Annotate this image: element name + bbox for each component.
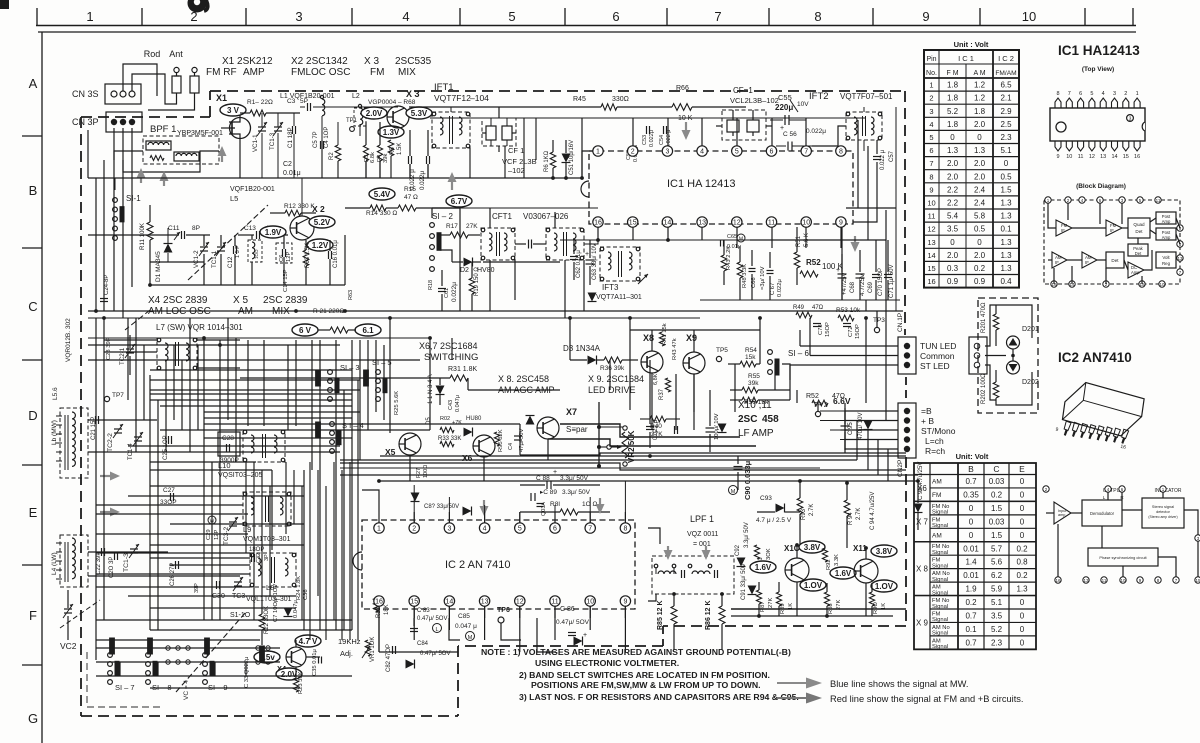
capacitor C54 — [663, 126, 665, 134]
IC1 block diagram post amp 1 box — [1156, 212, 1176, 224]
svg-text:0: 0 — [1020, 625, 1025, 634]
svg-text:X 3: X 3 — [364, 56, 379, 67]
wire x460 SI2 — [432, 207, 460, 209]
svg-text:X6,7 2SC1684: X6,7 2SC1684 — [419, 341, 478, 351]
svg-text:AM LOC OSC: AM LOC OSC — [148, 306, 211, 317]
resistor R55 — [742, 387, 758, 393]
svg-text:0.01μ: 0.01μ — [283, 170, 301, 177]
svg-text:5.2: 5.2 — [947, 107, 959, 116]
svg-text:0.2: 0.2 — [965, 598, 977, 607]
trim cap TC1-4 — [134, 436, 142, 438]
svg-text:0.1: 0.1 — [965, 625, 977, 634]
svg-text:A M: A M — [973, 70, 985, 77]
svg-text:Signal: Signal — [932, 617, 948, 623]
svg-text:1.4: 1.4 — [965, 558, 977, 567]
svg-text:5.2: 5.2 — [991, 625, 1003, 634]
svg-text:1.3: 1.3 — [1000, 264, 1012, 273]
variable cap VC2 — [64, 608, 72, 610]
svg-text:C63 33μ/ 10V: C63 33μ/ 10V — [592, 243, 598, 280]
svg-text:USING ELECTRONIC VOLTMETER.: USING ELECTRONIC VOLTMETER. — [535, 658, 679, 668]
wire bus y424 mid — [430, 423, 520, 425]
svg-text:2SC 2839: 2SC 2839 — [263, 295, 308, 306]
wire IC2 pin8 right — [648, 528, 660, 544]
svg-text:V03067–026: V03067–026 — [523, 212, 569, 221]
wire bus y285 — [150, 284, 345, 286]
capacitor C62 — [570, 256, 578, 258]
switch SI-7 — [108, 653, 113, 658]
wire pin13-16 stubs down — [597, 227, 599, 240]
voltage 5.4V — [369, 188, 395, 200]
svg-text:0: 0 — [977, 238, 982, 247]
svg-text:VQM1T03–301: VQM1T03–301 — [243, 536, 291, 543]
svg-text:5.1: 5.1 — [1000, 146, 1012, 155]
svg-text:6.5: 6.5 — [1000, 81, 1012, 90]
resistor R2 — [335, 145, 341, 161]
svg-text:Ant: Ant — [169, 49, 183, 59]
wire bus y178 — [88, 177, 582, 179]
svg-text:7: 7 — [588, 526, 592, 533]
resistor R23 — [293, 678, 298, 692]
svg-text:Demodulator: Demodulator — [1090, 511, 1115, 516]
svg-text:14: 14 — [446, 599, 454, 606]
capacitor C27 — [170, 493, 172, 501]
svg-text:Amp: Amp — [1162, 235, 1171, 240]
svg-text:CFT1: CFT1 — [492, 212, 513, 221]
svg-text:R6 1KΩ: R6 1KΩ — [544, 150, 550, 172]
svg-text:LF AMP: LF AMP — [738, 428, 774, 439]
svg-text:0.9: 0.9 — [974, 277, 986, 286]
dashed gang line L5 — [188, 205, 268, 280]
svg-text:C57: C57 — [889, 150, 895, 162]
svg-text:SI – 3: SI – 3 — [340, 363, 360, 372]
svg-text:C4 1OP: C4 1OP — [324, 127, 330, 148]
capacitor C20 — [114, 552, 116, 560]
svg-text:2.0: 2.0 — [974, 251, 986, 260]
svg-text:13: 13 — [698, 220, 706, 227]
svg-text:9: 9 — [922, 9, 929, 24]
wire X4 area — [261, 600, 263, 614]
wire bus y262-310 verticals — [87, 130, 89, 178]
IC2 block diagram stereo detector box — [1142, 498, 1184, 528]
wire CN1P feeds — [800, 345, 898, 347]
resistor R43 — [721, 255, 727, 271]
svg-text:C93: C93 — [760, 495, 772, 502]
svg-text:5: 5 — [735, 149, 739, 156]
small caps row C — [100, 298, 108, 300]
test point TP7 — [104, 396, 109, 401]
svg-text:10: 10 — [802, 220, 810, 227]
svg-text:TP6: TP6 — [497, 607, 510, 614]
svg-text:5: 5 — [1090, 91, 1093, 97]
svg-text:3 V: 3 V — [227, 106, 240, 115]
svg-text:0.022μ: 0.022μ — [419, 171, 426, 190]
svg-text:G: G — [28, 711, 38, 726]
svg-text:12: 12 — [733, 220, 741, 227]
svg-text:0: 0 — [1020, 504, 1025, 513]
svg-text:2.9: 2.9 — [1000, 107, 1012, 116]
svg-text:R45: R45 — [573, 96, 586, 103]
svg-text:L7 (SW) VQR 1014–301: L7 (SW) VQR 1014–301 — [156, 323, 243, 332]
svg-text:1.OV: 1.OV — [804, 581, 823, 590]
svg-text:3: 3 — [1113, 91, 1116, 97]
svg-text:R15: R15 — [404, 186, 416, 193]
wire CN2P horizontals — [820, 410, 898, 412]
voltage 3.8V X11 — [871, 545, 897, 557]
dashed circuit boundary right mid — [905, 377, 907, 400]
FET X1 — [230, 118, 251, 139]
IC1 pin 5 top lead — [1089, 98, 1095, 108]
IC1 pin 6 top lead — [1078, 98, 1084, 108]
svg-text:MIX: MIX — [398, 67, 416, 78]
svg-text:C85: C85 — [458, 613, 470, 620]
svg-text:0.8: 0.8 — [1016, 558, 1028, 567]
resistor R4 — [377, 145, 382, 161]
diode D7 — [864, 421, 873, 430]
svg-text:0.01: 0.01 — [963, 544, 979, 553]
wire x460 down from 6.7V — [459, 218, 461, 311]
svg-text:C 95: C 95 — [848, 422, 854, 435]
wire X1 drain bus — [240, 112, 250, 114]
svg-text:X7: X7 — [566, 407, 577, 417]
svg-text:6: 6 — [612, 9, 619, 24]
dashed circuit boundary top-left segment — [81, 116, 210, 118]
svg-text:1: 1 — [86, 9, 93, 24]
ceramic filter CF-1 — [722, 110, 766, 140]
svg-text:D201: D201 — [1022, 326, 1039, 333]
svg-text:1.5K: 1.5K — [397, 143, 403, 155]
circled M mark — [737, 234, 745, 242]
switch SI-9 — [203, 653, 208, 658]
switch SI-6 — [768, 350, 773, 355]
wire pins 9-12 stubs — [736, 227, 738, 248]
capacitor C6 box — [276, 243, 292, 263]
svg-text:3.3K: 3.3K — [834, 554, 840, 566]
resistor R15 — [398, 205, 416, 211]
diode into pin2 — [411, 493, 420, 502]
wire IC2 top pin stubs — [378, 512, 380, 523]
wire bus y360 left — [88, 359, 420, 361]
svg-text:LPF 1: LPF 1 — [690, 514, 714, 524]
svg-text:IF: IF — [1085, 260, 1089, 265]
circled mark W — [208, 516, 216, 524]
svg-text:L5.6: L5.6 — [52, 387, 59, 400]
svg-text:L5: L5 — [230, 194, 238, 203]
resistor R56 — [742, 397, 758, 403]
low pass filter LPF1 box — [652, 556, 734, 594]
svg-text:TP3: TP3 — [873, 317, 885, 324]
voltage 5.3V — [406, 107, 432, 119]
svg-text:11: 11 — [928, 212, 936, 221]
svg-text:2.0: 2.0 — [947, 159, 959, 168]
dashed circuit boundary bottom — [81, 715, 458, 717]
svg-text:Signal: Signal — [932, 604, 948, 610]
dashed circuit boundary right upper — [904, 91, 906, 335]
svg-text:VCF 2L3B: VCF 2L3B — [502, 157, 537, 166]
svg-text:Signal: Signal — [932, 577, 948, 583]
wire top mid verticals — [321, 140, 323, 178]
IC1 block diagram AM IF1 amp — [1052, 252, 1067, 268]
wire staircase bundle into LF amp — [560, 424, 740, 437]
svg-text:VC2: VC2 — [60, 641, 77, 651]
svg-text:3: 3 — [447, 526, 451, 533]
svg-text:C7 10Oμ/ 1OV: C7 10Oμ/ 1OV — [273, 584, 279, 622]
svg-text:15: 15 — [410, 599, 418, 606]
svg-text:X 8. 2SC458: X 8. 2SC458 — [498, 374, 549, 384]
circled M C90 — [729, 486, 738, 495]
svg-text:0.5: 0.5 — [1000, 172, 1012, 181]
wire bottom bus y616 — [731, 615, 893, 617]
svg-text:C24-8P: C24-8P — [104, 275, 110, 295]
svg-text:5.1: 5.1 — [991, 598, 1003, 607]
svg-text:4: 4 — [483, 526, 487, 533]
svg-text:2.7K: 2.7K — [809, 504, 815, 516]
svg-text:Signal: Signal — [932, 563, 948, 569]
IC1 pin 11 bottom lead — [1078, 141, 1084, 151]
wire CN2P feeds — [845, 410, 898, 412]
title fragment top-left — [0, 0, 9, 9]
svg-text:8: 8 — [1056, 91, 1059, 97]
svg-text:15: 15 — [1195, 578, 1200, 583]
IC2 block diagram input amp triangle — [1054, 502, 1071, 524]
svg-text:0.01: 0.01 — [963, 571, 979, 580]
svg-text:F: F — [29, 608, 37, 623]
svg-text:3: 3 — [295, 9, 302, 24]
svg-text:R36 39k: R36 39k — [600, 365, 625, 372]
svg-text:2) BAND SELCT SWITCHES ARE LO: 2) BAND SELCT SWITCHES ARE LOCATED IN FM… — [519, 670, 770, 680]
svg-text:2SC: 2SC — [738, 414, 757, 425]
svg-text:(Top View): (Top View) — [1082, 66, 1114, 73]
transformer L9 — [243, 492, 291, 526]
svg-text:C: C — [28, 299, 37, 314]
voltage 2.0V — [276, 668, 302, 680]
svg-text:▸C 89: ▸C 89 — [540, 489, 557, 496]
svg-text:2.0V: 2.0V — [281, 670, 298, 679]
diode C84d — [406, 660, 415, 669]
svg-text:IC2 AN7410: IC2 AN7410 — [1058, 350, 1132, 365]
svg-text:L2: L2 — [352, 93, 360, 100]
svg-text:3.3μ/ 50V: 3.3μ/ 50V — [744, 522, 750, 548]
ruler line — [36, 25, 1136, 27]
svg-text:0.3: 0.3 — [947, 264, 959, 273]
svg-text:D2: D2 — [460, 267, 469, 274]
svg-text:0.47μ/ 5OV: 0.47μ/ 5OV — [417, 616, 447, 622]
capacitor C28 — [226, 444, 228, 452]
wire right column verticals — [865, 300, 867, 311]
svg-text:1.2: 1.2 — [974, 94, 986, 103]
resistor R14 — [370, 205, 386, 211]
svg-text:2: 2 — [412, 526, 416, 533]
svg-text:15: 15 — [629, 220, 637, 227]
svg-text:SI – 7: SI – 7 — [115, 683, 135, 692]
resistor R19 — [469, 278, 475, 294]
trim cap TC1-1 — [217, 246, 225, 248]
svg-text:1 1 N 3 4 A: 1 1 N 3 4 A — [428, 374, 434, 404]
svg-text:C13: C13 — [244, 225, 256, 232]
svg-text:458: 458 — [762, 414, 779, 425]
voltage 1.6V X11 — [830, 567, 856, 579]
svg-text:16: 16 — [1134, 154, 1140, 160]
diode D3 — [588, 356, 597, 365]
resistor R93 — [797, 498, 803, 514]
resistor R6 vertical — [550, 152, 556, 168]
svg-text:6.2: 6.2 — [991, 571, 1003, 580]
wire R45 to R46 — [617, 106, 672, 108]
dashed gang line VC2 — [60, 600, 100, 628]
svg-text:4.7 μ / 2.5 V: 4.7 μ / 2.5 V — [756, 517, 792, 524]
wire IC2 pin1 left — [362, 490, 379, 512]
resistor R45 — [601, 104, 617, 110]
svg-text:1.3: 1.3 — [1016, 585, 1028, 594]
svg-text:D1 MA345: D1 MA345 — [155, 251, 162, 282]
svg-text:C 94 4.7u/25V: C 94 4.7u/25V — [870, 492, 876, 530]
resistor R91 — [754, 545, 759, 559]
svg-text:R66: R66 — [676, 85, 689, 92]
svg-text:SI-1: SI-1 — [126, 194, 141, 203]
svg-text:C90 0.033μ: C90 0.033μ — [743, 460, 752, 500]
svg-text:VCL2L3B–102: VCL2L3B–102 — [730, 96, 779, 105]
wire verticals from staircase to CN2P — [844, 411, 846, 453]
voltage 1.0V X10 — [800, 579, 826, 591]
wire drop x460 — [459, 208, 461, 218]
ruler ticks — [36, 8, 38, 25]
svg-text:C71 1μ/ 50V: C71 1μ/ 50V — [889, 265, 895, 298]
svg-text:0.9: 0.9 — [947, 277, 959, 286]
svg-text:6.8k: 6.8k — [370, 152, 376, 163]
capacitor C82 — [392, 646, 394, 654]
IC1 block diagram volt reg box — [1156, 252, 1176, 268]
svg-text:R63: R63 — [348, 290, 354, 300]
svg-text:1.8: 1.8 — [947, 120, 959, 129]
wire pin16 long down — [378, 618, 380, 652]
transformer IFT3 arrow — [638, 274, 648, 284]
wire bottom verticals to bus — [119, 662, 121, 676]
svg-text:2.0: 2.0 — [974, 172, 986, 181]
svg-text:5.8: 5.8 — [974, 212, 986, 221]
wire bottom collect bus y652 — [379, 651, 458, 653]
LW antenna coil L4 — [60, 535, 88, 587]
svg-text:detector: detector — [1156, 510, 1170, 514]
svg-text:C5 7P: C5 7P — [313, 131, 319, 148]
svg-text:Signal: Signal — [932, 644, 948, 650]
wire y456 bus2 — [660, 455, 906, 457]
transistor X7 — [537, 417, 559, 439]
voltage 2.5v — [254, 651, 280, 663]
svg-text:0.2: 0.2 — [991, 490, 1003, 499]
capacitor C13 — [256, 231, 258, 239]
IC1 HA12413 block outline — [589, 151, 853, 224]
LPF coil 2 — [692, 571, 710, 574]
svg-text:Unit: Volt: Unit: Volt — [956, 452, 989, 461]
svg-text:+: + — [583, 632, 587, 639]
svg-text:SI – 5: SI – 5 — [372, 358, 392, 367]
ceramic filter transformer CFT1b — [546, 228, 584, 260]
svg-text:0.1: 0.1 — [1000, 225, 1012, 234]
wire pin8 drop — [853, 200, 877, 222]
voltage 5.2V — [309, 216, 335, 228]
wire x582 vertical — [581, 118, 583, 178]
wire AGC long y378 — [240, 377, 450, 379]
svg-text:16: 16 — [594, 220, 602, 227]
svg-text:R53 10k: R53 10k — [836, 307, 861, 314]
IC1 block diagram internal wires — [1048, 203, 1056, 228]
IF transformer IFT2 — [846, 112, 882, 140]
wire bus y318 long — [88, 317, 700, 319]
svg-text:R22 33OK: R22 33OK — [264, 606, 270, 634]
svg-text:VC1-1: VC1-1 — [252, 134, 259, 152]
IC2 block diagram right pin circle — [1195, 535, 1200, 541]
svg-text:19KHz: 19KHz — [338, 637, 361, 646]
svg-text:C92: C92 — [735, 544, 741, 556]
svg-text:VQSIT03–205: VQSIT03–205 — [218, 472, 262, 479]
svg-text:10: 10 — [1120, 578, 1126, 583]
wire under-IC2 links — [413, 618, 415, 626]
svg-text:13: 13 — [927, 238, 935, 247]
svg-text:0: 0 — [969, 531, 974, 540]
svg-text:4: 4 — [402, 9, 409, 24]
IC2 block diagram wires — [1046, 512, 1054, 514]
svg-text:R24 1.8K: R24 1.8K — [296, 576, 302, 600]
diode at X7 — [526, 416, 535, 425]
capacitor C53 — [646, 126, 648, 134]
svg-text:R17: R17 — [446, 223, 458, 230]
gray arrow MW — [100, 472, 120, 481]
svg-text:C12: C12 — [227, 256, 234, 268]
svg-text:MIX: MIX — [272, 306, 290, 317]
resistor R3 — [363, 145, 368, 161]
wire matrix verticals — [149, 375, 151, 630]
resistor R54 — [740, 361, 756, 367]
dashed circuit boundary left — [80, 117, 82, 716]
svg-text:R202 100Ω: R202 100Ω — [981, 373, 987, 404]
svg-text:27K: 27K — [768, 598, 774, 608]
resistor R48 — [737, 262, 743, 278]
svg-text:CN.1P: CN.1P — [897, 313, 904, 332]
svg-text:2.7K: 2.7K — [856, 508, 862, 520]
dashed gang line VC-4 — [176, 612, 246, 692]
svg-text:+47/25V: +47/25V — [842, 272, 848, 295]
diode at IFT3 left — [588, 293, 597, 302]
gray arrow into pin5 area — [596, 498, 605, 514]
svg-text:R12 330 K: R12 330 K — [284, 203, 315, 210]
svg-text:2.0: 2.0 — [947, 251, 959, 260]
svg-text:1: 1 — [1136, 91, 1139, 97]
IC1 pin 2 top lead — [1123, 98, 1129, 108]
resistor R32 — [440, 427, 454, 432]
svg-text:4: 4 — [929, 120, 933, 129]
svg-text:15: 15 — [1123, 154, 1129, 160]
svg-text:AM: AM — [932, 532, 942, 539]
svg-text:M: M — [739, 237, 743, 243]
capacitor C1 — [292, 126, 294, 134]
diode C93d — [776, 504, 785, 513]
transistor X9 — [683, 352, 705, 374]
svg-text:2.1: 2.1 — [1000, 94, 1012, 103]
wire bus y338 — [88, 337, 430, 339]
capacitor C69 — [856, 273, 865, 275]
svg-text:R54: R54 — [745, 347, 757, 354]
svg-text:0: 0 — [1020, 612, 1025, 621]
svg-text:AMP: AMP — [243, 67, 265, 78]
label 2.0V X3 — [361, 107, 387, 119]
svg-text:3.8V: 3.8V — [804, 543, 821, 552]
svg-text:R31 1.8K: R31 1.8K — [448, 366, 478, 373]
wire y262 row — [150, 261, 204, 263]
svg-text:2.0V: 2.0V — [366, 109, 383, 118]
IC1 pin 7 top lead — [1066, 98, 1072, 108]
svg-text:0: 0 — [1020, 598, 1025, 607]
wire top bus y107 — [266, 112, 300, 114]
IC2 block diagram pin circles bottom — [1055, 577, 1061, 583]
